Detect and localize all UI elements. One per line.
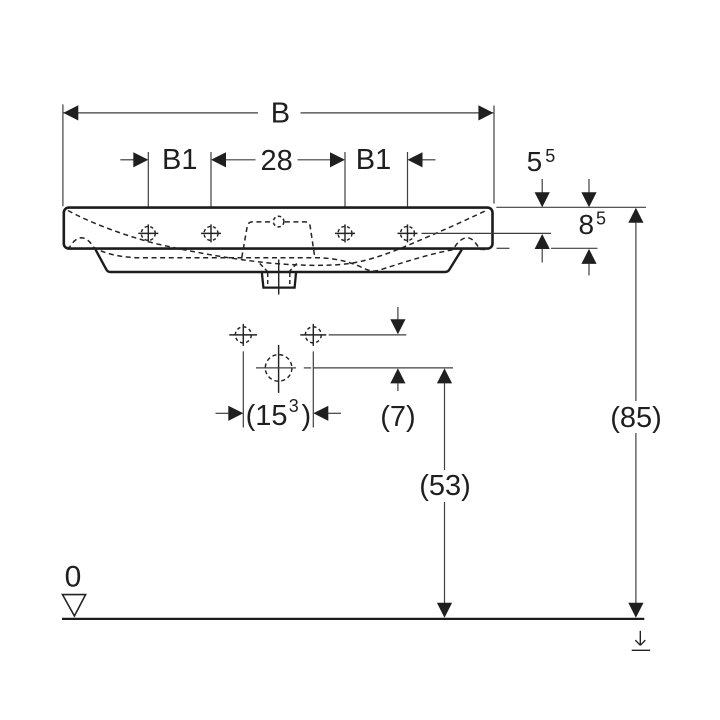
dimension B arrowhead right <box>478 105 493 120</box>
siphon horizontal line right <box>314 367 454 369</box>
siphon vertical center line <box>278 345 280 393</box>
svg-text:(85): (85) <box>610 402 662 434</box>
dimension B1 left arrow <box>120 159 134 161</box>
floor continuation symbol (arrow with underline) <box>632 631 651 651</box>
dimension 28 left arrow <box>211 152 226 167</box>
svg-text:B1: B1 <box>162 144 197 176</box>
dimension (15.3) right arrow <box>313 406 328 421</box>
extension line tap hole 2 <box>210 152 212 222</box>
svg-text:(53): (53) <box>419 470 471 502</box>
dimension 8.5 down arrow <box>588 179 590 193</box>
tap hole 1 <box>138 224 158 242</box>
dimension 8.5 up arrow <box>581 249 596 264</box>
dimension B extension line right <box>493 106 495 204</box>
siphon horizontal cross line <box>256 367 296 369</box>
dimension (15.3) left arrow <box>216 412 230 414</box>
dimension 5.5 up arrow <box>535 234 550 249</box>
washbasin lower body <box>96 250 462 272</box>
extension line tap hole 4 <box>407 152 409 222</box>
svg-text:(15: (15 <box>246 400 288 432</box>
rim bottom extension stub <box>497 247 510 249</box>
dimension (7) down arrow <box>397 307 399 320</box>
dimension 5.5 down arrow <box>541 179 543 193</box>
svg-text:(7): (7) <box>380 401 415 433</box>
dimension (53) line <box>437 368 452 383</box>
drain funnel dashed diagonals <box>260 264 297 272</box>
svg-text:28: 28 <box>260 145 292 177</box>
siphon circle <box>265 355 292 382</box>
dimension 28 right arrow <box>298 159 331 161</box>
svg-text:B1: B1 <box>356 144 391 176</box>
svg-text:5: 5 <box>527 146 543 177</box>
washbasin rim (front view) <box>64 208 493 249</box>
bowl inner dashed curve with end bumps <box>67 238 489 271</box>
floor line <box>62 618 644 620</box>
svg-text:5: 5 <box>596 209 606 229</box>
drain center line <box>278 260 280 295</box>
dimension B arrowhead left <box>63 105 78 120</box>
tap hole line extension right <box>422 232 552 234</box>
fixing hole right <box>300 324 326 346</box>
fixing hole left <box>229 324 257 346</box>
fixing hole extension line left <box>242 351 244 427</box>
svg-text:8: 8 <box>579 209 595 240</box>
svg-text:3: 3 <box>289 396 299 416</box>
svg-text:0: 0 <box>65 560 82 593</box>
extension line tap hole 3 <box>344 152 346 222</box>
fixing hole line to (7) <box>329 334 407 336</box>
rim top extension line right <box>496 206 646 208</box>
dimension (85) line <box>628 208 643 223</box>
siphon line dash <box>304 367 311 369</box>
overflow hole dashed circle <box>273 216 284 227</box>
drain fitting inner dashed lines <box>268 273 290 286</box>
svg-text:5: 5 <box>545 146 555 166</box>
svg-text:): ) <box>302 400 312 432</box>
tap hole 2 <box>201 224 221 242</box>
dimension (7) up arrow <box>390 368 405 383</box>
drain fitting <box>262 273 296 288</box>
dimension B1 right arrow <box>408 152 423 167</box>
extension line tap hole 1 <box>147 152 149 222</box>
tap hole 4 <box>398 224 418 242</box>
svg-text:B: B <box>271 98 290 130</box>
rim bottom extension segment <box>551 247 598 249</box>
overflow platform dashed outline <box>242 222 315 258</box>
dimension B extension line left <box>62 104 64 206</box>
fixing hole extension line right <box>312 351 314 427</box>
bowl outline dashed (upper curve) <box>68 210 487 265</box>
tap hole 3 <box>335 224 355 242</box>
dimension B line <box>63 112 493 114</box>
zero level triangle <box>63 595 86 616</box>
